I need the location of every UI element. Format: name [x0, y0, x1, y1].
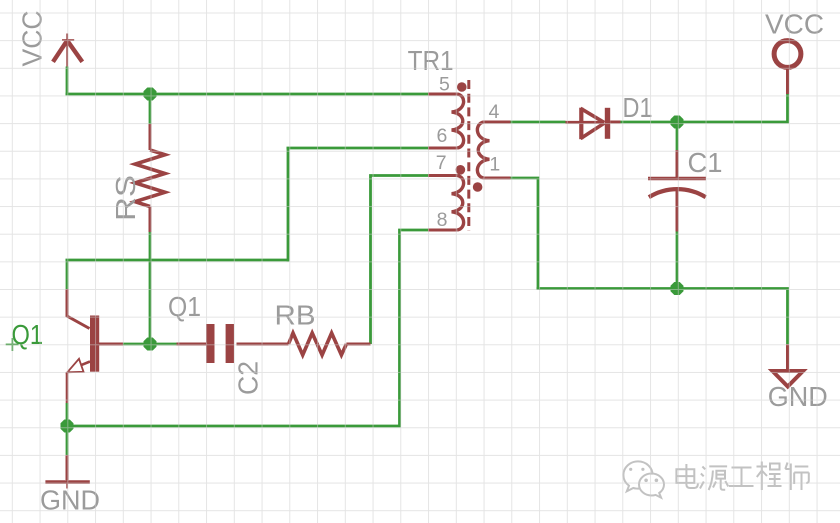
capacitor C1: [648, 150, 706, 232]
label Q1 green with origin cross: [6, 319, 43, 351]
label RB: [275, 300, 316, 331]
emitter arrow Q1: [67, 359, 83, 373]
pin number 4: [489, 101, 500, 123]
wire diode to VCC right: [621, 94, 788, 122]
transistor Q1: [67, 289, 123, 403]
label RS: [110, 175, 141, 221]
pin number 1: [489, 154, 500, 176]
capacitor C2: [177, 324, 289, 363]
wire collector riser: [66, 260, 69, 289]
wire RS top stub: [149, 94, 152, 124]
label Q1 gray: [168, 291, 201, 322]
watermark text 电源工程师: [676, 462, 810, 492]
D1 triangle: [581, 108, 605, 140]
ground GND left bar symbol: [45, 455, 89, 489]
collector lead Q1: [67, 289, 90, 329]
D1 cathode lead: [610, 121, 620, 124]
C1 bottom lead: [676, 190, 679, 232]
D1 cathode bar: [605, 108, 610, 139]
node junction at 677,288.5: [671, 282, 684, 295]
watermark wechat icon: [623, 461, 664, 497]
ground GND right triangle symbol: [773, 344, 804, 386]
label VCC left: [17, 11, 48, 67]
C1 top lead: [676, 150, 679, 179]
TR1 secondary winding 4-1: [477, 122, 489, 178]
TR1 pin6 lead: [428, 147, 457, 150]
wire C1 bottom stub: [676, 232, 679, 291]
wire base rail: [123, 343, 177, 346]
transformer TR1: [428, 80, 511, 231]
TR1 polarity dot pin7: [456, 165, 466, 175]
resistor RB: [289, 333, 371, 355]
base bar Q1: [90, 316, 99, 372]
wire RB to pin7 riser: [371, 176, 429, 345]
wire secondary pin4 to diode: [511, 121, 566, 124]
pin number 6: [437, 125, 448, 147]
emitter lead Q1: [67, 362, 90, 404]
wire emitter column: [66, 403, 69, 455]
TR1 pin1 lead: [484, 177, 511, 180]
pin number 7: [436, 152, 447, 174]
node junction at 67,426: [61, 420, 74, 433]
wire pin1 to bottom rail: [511, 178, 539, 289]
wire VCC left lead: [66, 67, 69, 95]
supply VCC right circle symbol: [774, 41, 801, 94]
C2 plates: [206, 324, 234, 363]
C2 right pin: [237, 343, 289, 346]
label D1: [623, 92, 653, 123]
label TR1: [408, 45, 454, 76]
node junction at 150,344: [144, 338, 157, 351]
resistor RS: [135, 124, 165, 232]
TR1 core dashed line: [467, 80, 470, 231]
supply VCC left arrow symbol: [53, 34, 82, 67]
D1 anode lead: [566, 121, 605, 124]
label C2: [233, 361, 264, 395]
label GND left: [40, 485, 100, 516]
C1 top plate: [648, 177, 706, 181]
pin number 5: [439, 74, 450, 96]
C1 curved plate: [649, 189, 706, 197]
node junction at 150,94: [144, 88, 157, 101]
TR1 pin4 lead: [484, 121, 511, 124]
label C1: [688, 147, 723, 178]
base pin Q1: [99, 343, 123, 346]
pin number 8: [437, 209, 448, 231]
wire riser x288 to pin6 level: [287, 148, 290, 262]
wire bottom right rail: [537, 289, 788, 345]
wire RS bottom to base node: [149, 232, 152, 344]
wire C1 top stub: [676, 122, 679, 150]
label GND right: [768, 381, 828, 412]
TR1 polarity dot pin5: [457, 82, 467, 92]
TR1 pin8 lead: [428, 229, 457, 232]
wire pin6 link: [287, 147, 429, 150]
TR1 pin7 lead: [428, 174, 457, 177]
TR1 pin5 lead: [428, 93, 457, 96]
TR1 polarity dot pin1: [473, 182, 483, 192]
wire pin8 down and across bottom: [67, 230, 428, 426]
node junction at 677,122: [671, 116, 684, 129]
C2 left pin: [177, 343, 207, 346]
TR1 primary winding 5-6: [452, 94, 464, 148]
label VCC right: [765, 9, 824, 40]
wire mid rail collector to x288: [66, 259, 289, 262]
diode D1: [566, 108, 621, 140]
wire top rail VCC to TR1 pin5: [66, 93, 429, 96]
TR1 primary winding 7-8: [452, 176, 464, 231]
